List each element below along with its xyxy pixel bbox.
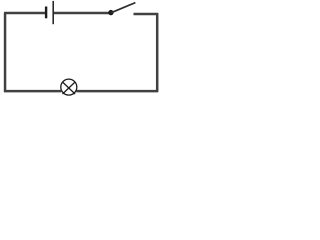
lamp L1 cross stroke B	[63, 82, 76, 94]
lamp L1 cross stroke A	[63, 82, 76, 94]
wire: right vertical	[156, 13, 159, 92]
wire: switch fixed contact to top-right corner	[134, 13, 159, 16]
wire: top-left horizontal (left corner to battery negative)	[4, 12, 45, 15]
wire: top-middle horizontal (battery positive to switch pole)	[54, 12, 112, 15]
node: switch pole junction dot	[108, 10, 113, 15]
lamp L1 circle	[61, 79, 77, 95]
wire: left vertical	[4, 13, 7, 92]
switch S1 open lever arm	[111, 3, 135, 13]
wire: bottom-left horizontal (lamp to left corner)	[4, 90, 61, 93]
wire: bottom-right horizontal (right corner to lamp)	[76, 90, 158, 93]
battery B1 positive long thin plate	[52, 1, 54, 24]
battery B1 negative short thick plate	[45, 7, 47, 19]
